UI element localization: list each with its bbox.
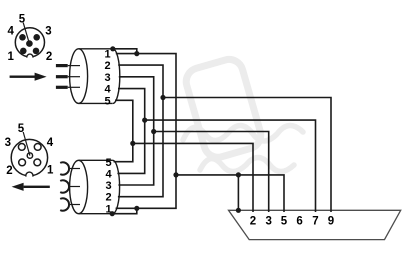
wire net pin5 [114, 100, 133, 161]
junction shell drop top [236, 172, 241, 177]
bottom face socket 1 [34, 159, 41, 166]
svg-text:5: 5 [18, 123, 25, 135]
svg-text:9: 9 [328, 215, 334, 227]
svg-text:5: 5 [281, 215, 288, 227]
wire net pin1: top shield tail [113, 49, 137, 54]
junction pin5 branch [130, 141, 135, 146]
junction top pin1/shield [134, 51, 139, 56]
svg-text:3: 3 [265, 215, 271, 227]
wire net pin1: top pin1 to vertical down to bottom pin1 [116, 54, 176, 209]
junction pin3 branch [151, 129, 156, 134]
D-sub connector body [229, 210, 401, 239]
svg-text:3: 3 [104, 72, 110, 84]
bottom face keyway notch [26, 172, 33, 179]
svg-text:2: 2 [6, 165, 12, 177]
svg-text:1: 1 [104, 48, 110, 60]
svg-text:5: 5 [19, 14, 26, 26]
svg-text:5: 5 [104, 95, 110, 107]
top face pin 5 dot [26, 40, 33, 47]
bottom face socket 2 [19, 159, 26, 166]
svg-text:2: 2 [105, 192, 111, 204]
watermark [183, 56, 303, 171]
top body male pin dash 2 [56, 75, 80, 78]
svg-text:3: 3 [5, 137, 11, 149]
bottom body female contact hook 2 [60, 180, 80, 192]
top face keyway notch [27, 54, 33, 60]
bottom direction arrow (left) [12, 183, 50, 191]
top body male pin dash 1 [56, 64, 80, 67]
wire net pin2: branch to D-sub pin 9 [163, 98, 331, 213]
svg-text:4: 4 [105, 168, 112, 180]
bottom body female contact hook 3 [60, 198, 80, 210]
top face pin 1 dot [20, 48, 27, 55]
svg-text:1: 1 [7, 51, 14, 63]
top M12 face circle [15, 28, 44, 57]
top face pin 3 dot [33, 34, 40, 41]
wire net pin4 [117, 89, 144, 174]
top face pin 2 dot [33, 48, 40, 55]
junction pin2 branch [160, 95, 165, 100]
junction pin1 branch [173, 172, 178, 177]
svg-text:3: 3 [105, 180, 111, 192]
wire net pin5: branch to D-sub pin 2 [133, 143, 253, 212]
junction bottom shield at body [110, 211, 115, 216]
bottom face socket 3 [18, 144, 25, 151]
svg-text:4: 4 [47, 137, 54, 149]
junction dots [110, 46, 241, 216]
svg-text:7: 7 [312, 215, 318, 227]
bottom face leader line for pin 5 [23, 132, 30, 156]
bottom face socket 5 [27, 153, 32, 158]
wire net pin4: branch to D-sub pin 7 [145, 120, 316, 212]
bottom face socket 4 [34, 144, 41, 151]
bottom body female contact hook 1 [60, 162, 80, 174]
svg-text:2: 2 [250, 215, 256, 227]
svg-text:1: 1 [47, 165, 54, 177]
top direction arrow (right) [10, 73, 47, 81]
svg-text:4: 4 [7, 25, 14, 37]
svg-text:3: 3 [45, 25, 51, 37]
bottom M12 face circle [11, 139, 47, 175]
top face pin 4 dot [19, 34, 26, 41]
junction shell at D-sub [236, 208, 241, 213]
wire net pin3: branch to D-sub pin 3 [154, 132, 269, 213]
svg-text:4: 4 [104, 84, 111, 96]
svg-text:2: 2 [104, 60, 110, 72]
svg-text:5: 5 [105, 157, 111, 169]
svg-text:6: 6 [296, 215, 302, 227]
wire net pin1: branch to D-sub pin 5 [176, 175, 284, 212]
top connector body (cylinder) [70, 49, 120, 104]
wire net pin1: shell drop to D-sub shield [237, 175, 239, 210]
wire net pin1: bottom shield tail [112, 208, 137, 213]
junction pin4 branch [142, 118, 147, 123]
wire net pin2 [118, 65, 163, 197]
junction top shield at body [110, 46, 115, 51]
wire net pin3 [118, 77, 153, 185]
top body male pin dash 3 [56, 86, 80, 89]
bottom connector body (cylinder) [70, 160, 120, 213]
svg-text:2: 2 [46, 51, 52, 63]
top face leader line for pin 5 [23, 23, 29, 44]
junction bottom pin1/shield [134, 206, 139, 211]
